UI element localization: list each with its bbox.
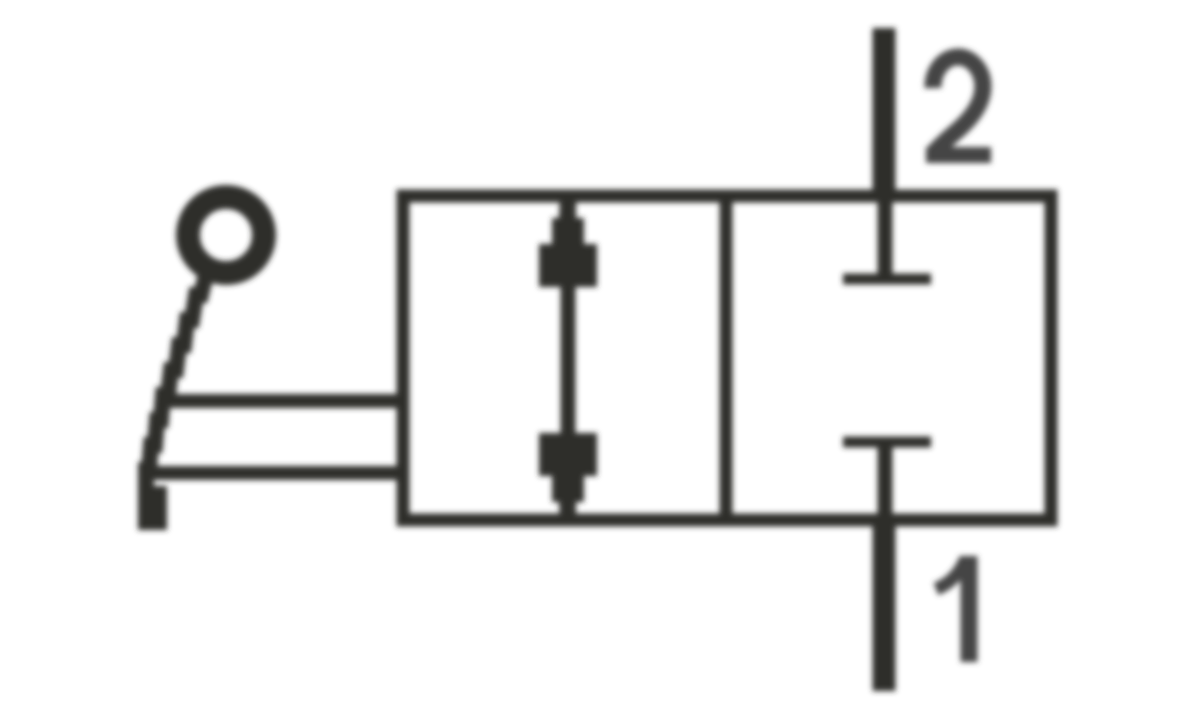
valve position box left (flow path position) — [403, 196, 726, 520]
port label 2 — [926, 57, 991, 155]
port 2 external line — [873, 28, 896, 200]
port 1 external line — [873, 516, 896, 691]
flow arrow shaft — [561, 280, 576, 440]
port 1 blocked seat bar — [843, 437, 931, 448]
lever linkage lower rod — [150, 466, 408, 480]
valve position box right (closed position) — [726, 196, 1051, 520]
lever arm — [146, 270, 207, 512]
lever linkage upper rod — [170, 394, 408, 408]
lever knob — [188, 197, 264, 273]
port 1 internal stub — [878, 445, 893, 520]
port 2 blocked seat bar — [843, 274, 931, 285]
flow arrow head top — [539, 196, 597, 287]
lever foot — [138, 486, 167, 530]
port 2 internal stub — [878, 196, 893, 276]
port label 1 — [936, 556, 969, 662]
flow arrow head bottom — [539, 433, 597, 524]
